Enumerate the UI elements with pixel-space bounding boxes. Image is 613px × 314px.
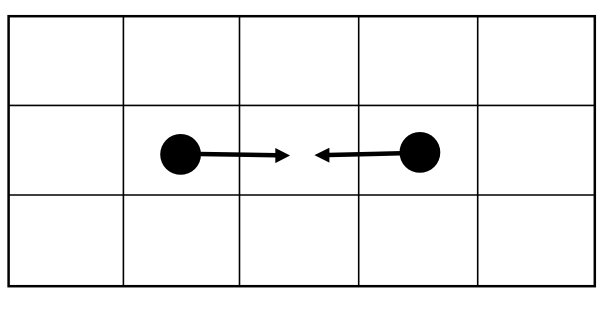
- grid horizontal line 1: [9, 104, 595, 106]
- wire: left arrow shaft (pointing right): [199, 154, 277, 155]
- grid vertical line 2: [239, 16, 241, 286]
- left arrow head: [275, 148, 290, 163]
- grid vertical line 3: [358, 16, 360, 286]
- node A: left ball: [160, 134, 201, 175]
- grid vertical line 1: [122, 16, 124, 286]
- wire: right arrow shaft (pointing left): [329, 153, 402, 155]
- right arrow head: [314, 148, 329, 163]
- grid vertical line 4: [477, 16, 479, 286]
- grid horizontal line 2: [9, 194, 595, 196]
- node B: right ball: [400, 132, 441, 173]
